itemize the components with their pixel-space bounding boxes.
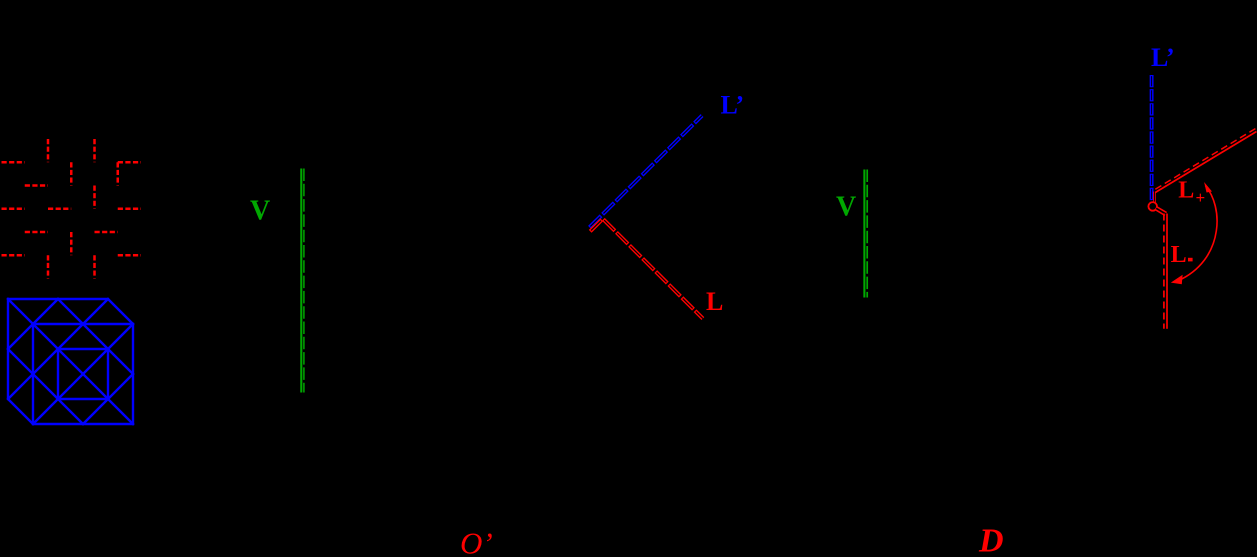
- wire red bend from node: [1156, 208, 1166, 214]
- line V2 solid (green mirror): [863, 170, 865, 298]
- line L' vertical (right, blue double-dashed): [1150, 75, 1154, 202]
- wire blue H y349: [58, 348, 108, 350]
- wire red-lattice H j1 i0-i1: [2, 161, 25, 164]
- line L' (middle, blue double-dashed): [590, 116, 703, 228]
- svg-text:L’: L’: [1151, 43, 1175, 72]
- line L- vertical dashed image: [1163, 214, 1165, 329]
- line L+ diagonal solid: [1155, 132, 1256, 193]
- wire red-lattice H j2 i1-i2: [25, 184, 48, 187]
- wire blue diagonal cell(4,1): [108, 324, 133, 349]
- wire red-lattice H j3 i5-i6: [118, 208, 141, 211]
- blue T-graph boundary: [8, 299, 133, 424]
- wire blue H y399: [58, 398, 108, 400]
- line L+ diagonal dashed image: [1154, 129, 1256, 191]
- wire blue diagonal cell(2,4): [58, 399, 83, 424]
- wire red short vertical into node: [1153, 192, 1156, 203]
- wire blue diagonal cell(1,0): [33, 299, 58, 324]
- wire red-lattice V i5 j1-j2: [117, 162, 120, 185]
- line V2 dashed image: [866, 170, 868, 298]
- wire red-lattice V i2 j5-j6: [47, 255, 50, 278]
- wire red-lattice H j4 i4-i5: [95, 231, 118, 234]
- wire blue diagonal cell(0,2): [8, 349, 33, 374]
- wire blue diagonal cell(3,2): [83, 349, 108, 374]
- wire red-lattice V i4 j5-j6: [93, 255, 96, 278]
- wire blue diagonal cell(1,4): [33, 399, 58, 424]
- wire blue V x33: [32, 324, 34, 424]
- svg-text:O’: O’: [460, 526, 493, 557]
- wire blue diagonal cell(3,4): [83, 399, 108, 424]
- wire blue diagonal cell(4,3): [108, 374, 133, 399]
- svg-text:D: D: [978, 523, 1004, 557]
- wire red-lattice V i4 j0-j1: [93, 139, 96, 162]
- wire blue V x58: [57, 349, 59, 399]
- wire blue diagonal cell(4,2): [108, 349, 133, 374]
- wire red-lattice H j5 i5-i6: [118, 254, 141, 257]
- wire blue diagonal cell(1,1): [33, 324, 58, 349]
- wire blue diagonal cell(3,0): [83, 299, 108, 324]
- svg-text:L: L: [1171, 242, 1187, 268]
- wire red-lattice H j3 i0-i1: [2, 208, 25, 211]
- wire red-lattice H j3 i2-i3: [48, 208, 71, 211]
- wire blue diagonal cell(0,1): [8, 324, 33, 349]
- wire blue diagonal cell(2,0): [58, 299, 83, 324]
- svg-text:L: L: [706, 287, 723, 316]
- wire blue diagonal cell(3,3): [83, 374, 108, 399]
- wire blue diagonal cell(3,1): [83, 324, 108, 349]
- wire red-lattice V i2 j0-j1: [47, 139, 50, 162]
- wire blue diagonal cell(1,3): [33, 374, 58, 399]
- line V1 dashed image: [303, 169, 305, 393]
- svg-text:+: +: [1196, 188, 1206, 207]
- arrowhead top of arc: [1204, 182, 1212, 193]
- wire blue diagonal cell(4,4): [108, 399, 133, 424]
- arrowhead bottom of arc: [1171, 275, 1183, 284]
- svg-text:L’: L’: [721, 91, 745, 120]
- wire red-lattice H j4 i1-i2: [25, 231, 48, 234]
- wire blue diagonal cell(0,0): [8, 299, 33, 324]
- arc arrow L+ to L-: [1178, 186, 1217, 281]
- node open circle at junction: [1148, 202, 1157, 211]
- wire blue V x108: [107, 349, 109, 399]
- line L (middle, red double-dashed bent): [590, 219, 703, 319]
- line L- vertical solid: [1166, 214, 1168, 329]
- svg-text:V: V: [836, 192, 856, 223]
- wire red-lattice H j5 i0-i1: [2, 254, 25, 257]
- wire blue diagonal cell(2,2): [58, 349, 83, 374]
- wire red-lattice H j1 i5-i6: [118, 161, 141, 164]
- wire blue diagonal cell(2,3): [58, 374, 83, 399]
- wire red-lattice V i3 j1-j2: [70, 162, 73, 185]
- wire blue diagonal cell(0,3): [8, 374, 33, 399]
- svg-text:L: L: [1178, 178, 1194, 204]
- wire blue diagonal cell(2,1): [58, 324, 83, 349]
- wire red-lattice V i3 j4-j5: [70, 232, 73, 255]
- wire red-lattice V i4 j2-j3: [93, 186, 96, 209]
- line V1 solid (green mirror): [300, 169, 302, 393]
- svg-text:V: V: [250, 196, 270, 227]
- wire blue diagonal cell(1,2): [33, 349, 58, 374]
- wire blue H y324: [33, 323, 133, 325]
